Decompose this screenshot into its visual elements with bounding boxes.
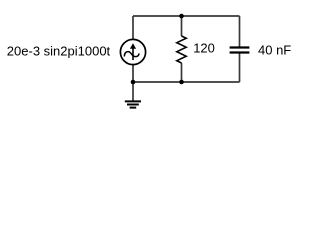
resistor R 120 — [177, 36, 186, 63]
wire resistor bottom lead — [181, 63, 183, 82]
wire left vertical top — [132, 16, 134, 40]
svg-text:120: 120 — [193, 41, 215, 56]
capacitor C 40nF — [230, 48, 250, 53]
node junction dot resistor bottom — [179, 80, 184, 85]
wire right vertical (capacitor branch) — [239, 16, 241, 47]
current source I1 — [120, 39, 145, 64]
node junction dot bottom left — [131, 80, 136, 85]
svg-text:20e-3 sin2pi1000t: 20e-3 sin2pi1000t — [7, 43, 111, 58]
wire ground stub — [132, 82, 134, 101]
node junction dot top (resistor top) — [179, 14, 184, 19]
wire resistor top lead — [181, 16, 183, 36]
wire bottom — [133, 81, 240, 83]
wire left vertical bottom — [132, 65, 134, 83]
wire top (node A to cap) — [133, 15, 240, 17]
ground — [125, 101, 141, 107]
svg-text:40 nF: 40 nF — [258, 43, 291, 58]
